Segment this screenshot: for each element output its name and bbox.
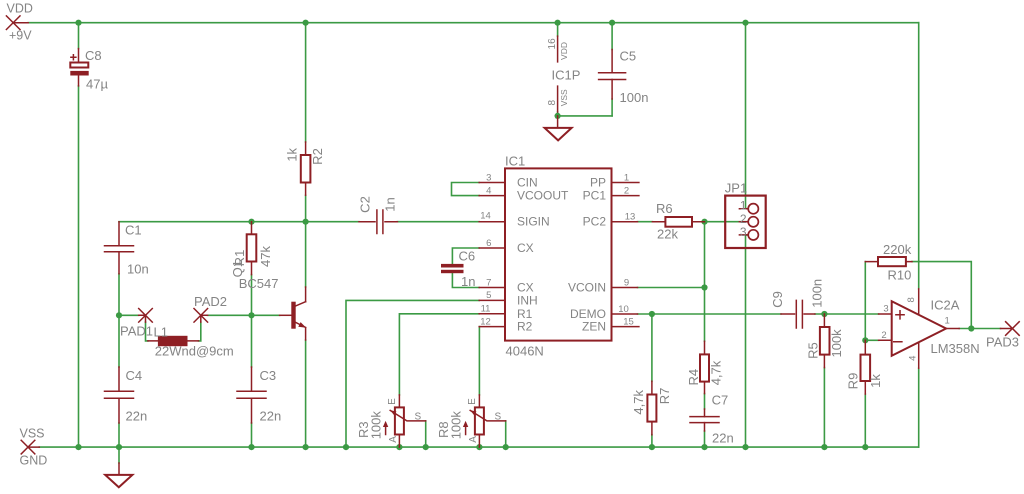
- wire IC1 pin 10 DEMO to C9: [638, 313, 782, 315]
- svg-text:8: 8: [906, 297, 917, 302]
- wire R9 to bottom rail: [864, 394, 866, 447]
- wire top rail to JP1 pin 1: [746, 23, 749, 209]
- svg-text:10n: 10n: [127, 262, 149, 277]
- svg-text:C4: C4: [126, 368, 143, 383]
- svg-text:15: 15: [623, 316, 634, 327]
- svg-text:7: 7: [486, 277, 491, 288]
- wire top rail to R2: [305, 23, 307, 142]
- svg-text:PAD2: PAD2: [194, 294, 227, 309]
- svg-text:4,7k: 4,7k: [631, 390, 646, 415]
- svg-text:1n: 1n: [383, 197, 398, 211]
- capacitor C8: [70, 48, 108, 91]
- wire top rail to C8: [78, 23, 80, 49]
- svg-text:100k: 100k: [369, 411, 384, 440]
- svg-text:2: 2: [881, 330, 886, 341]
- svg-text:2: 2: [740, 212, 747, 226]
- ground symbol below C4: [105, 463, 132, 487]
- wire IC1 pin 6 to C6: [452, 248, 479, 264]
- svg-text:3: 3: [740, 225, 747, 239]
- wire C4 to bottom rail: [118, 423, 120, 447]
- svg-text:LM358N: LM358N: [931, 341, 980, 356]
- junction dots top rail: [75, 20, 748, 26]
- svg-text:47k: 47k: [258, 246, 273, 267]
- svg-text:R6: R6: [656, 201, 673, 216]
- svg-text:R4: R4: [686, 369, 701, 386]
- inductor L1: [148, 325, 234, 359]
- svg-text:S: S: [415, 412, 422, 423]
- capacitor C1: [105, 222, 149, 277]
- svg-text:VDD: VDD: [7, 1, 33, 15]
- svg-text:INH: INH: [517, 294, 538, 308]
- svg-text:R5: R5: [806, 342, 821, 359]
- resistor R10: [865, 242, 912, 283]
- wire op-amp pin 4 to bottom rail: [918, 368, 920, 447]
- svg-text:A: A: [388, 436, 399, 443]
- svg-text:4046N: 4046N: [506, 343, 544, 358]
- svg-text:IC1P: IC1P: [552, 68, 581, 83]
- svg-text:BC547: BC547: [239, 276, 279, 291]
- wire IC1 pin 13 to R6: [638, 221, 653, 223]
- wire R4 to C7: [704, 394, 706, 409]
- wire R3 wiper to bottom rail: [425, 421, 427, 447]
- svg-text:PC2: PC2: [583, 215, 607, 229]
- wire R10 left to pin2 node: [864, 262, 866, 341]
- wire C7 to bottom rail: [704, 431, 706, 447]
- wire L1 to PAD2: [199, 322, 201, 341]
- wire C3 to bottom rail: [251, 423, 253, 447]
- svg-text:SIGIN: SIGIN: [517, 215, 550, 229]
- wire R5 to bottom rail: [823, 368, 825, 448]
- wire Q1 emitter to bottom rail: [305, 340, 307, 447]
- svg-text:PAD1: PAD1: [120, 324, 153, 339]
- svg-text:R10: R10: [888, 268, 912, 283]
- svg-text:IC1: IC1: [505, 154, 525, 169]
- svg-text:1: 1: [740, 199, 747, 213]
- svg-text:R7: R7: [657, 388, 672, 405]
- svg-text:100n: 100n: [620, 90, 649, 105]
- resistor R1: [232, 222, 273, 275]
- pad PAD3: [986, 322, 1019, 350]
- resistor R9: [846, 340, 884, 394]
- svg-text:ZEN: ZEN: [582, 320, 606, 334]
- svg-text:C2: C2: [357, 196, 372, 213]
- wire IC1 pin 11 to R3: [399, 314, 479, 395]
- wire pin2 node to op-amp pin 2: [865, 339, 878, 341]
- svg-text:C5: C5: [620, 48, 637, 63]
- svg-text:22Wnd@9cm: 22Wnd@9cm: [155, 344, 234, 359]
- wire C9 to op-amp pin 3: [815, 313, 879, 315]
- svg-text:CX: CX: [517, 281, 534, 295]
- transistor Q1: [230, 260, 306, 340]
- wire R6 to JP1 pin 2: [705, 221, 749, 223]
- svg-text:C9: C9: [770, 291, 785, 308]
- wire ground stub below C4: [118, 447, 120, 463]
- op-amp IC2A: [879, 289, 980, 368]
- svg-text:11: 11: [481, 304, 491, 315]
- svg-text:22k: 22k: [657, 227, 678, 242]
- wire VSS bottom rail: [39, 446, 918, 448]
- svg-text:S: S: [495, 412, 502, 423]
- wire VDD top rail: [28, 22, 919, 24]
- pad VDD: [6, 1, 33, 42]
- svg-text:Q1: Q1: [230, 260, 245, 277]
- wire PAD1 node to C4: [118, 315, 120, 367]
- svg-text:9: 9: [624, 277, 629, 288]
- pad VSS / GND: [20, 426, 48, 467]
- svg-text:VCOOUT: VCOOUT: [517, 189, 569, 203]
- svg-text:C3: C3: [260, 368, 277, 383]
- connector JP1: [725, 181, 766, 248]
- wire IC1P pin 8 to ground: [558, 112, 613, 116]
- svg-text:PAD3: PAD3: [986, 335, 1019, 350]
- wire R8 wiper to bottom rail: [505, 421, 507, 447]
- wire C8 to bottom rail: [78, 86, 80, 447]
- svg-text:100n: 100n: [810, 279, 825, 308]
- svg-text:GND: GND: [20, 454, 48, 468]
- svg-text:1n: 1n: [461, 274, 475, 289]
- wire R1 to base node: [251, 275, 253, 316]
- wire C1 to PAD1 node: [118, 274, 120, 316]
- svg-text:E: E: [467, 398, 478, 405]
- wire R6 node down to R4: [704, 222, 706, 342]
- svg-text:6: 6: [486, 238, 491, 249]
- wire IC1 pins 3-4 loop: [452, 183, 480, 196]
- svg-text:VCOIN: VCOIN: [568, 281, 606, 295]
- svg-text:8: 8: [547, 99, 558, 105]
- svg-text:PP: PP: [590, 176, 606, 190]
- capacitor C7: [690, 393, 734, 446]
- capacitor C2: [357, 196, 397, 233]
- wire IC1 pin 5 INH: [346, 300, 479, 447]
- IC1P power gate: [547, 36, 580, 112]
- svg-text:1k: 1k: [284, 147, 299, 161]
- svg-text:C7: C7: [712, 393, 729, 408]
- wire R2 to node A: [305, 195, 307, 221]
- wire C2 to IC1 pin 14: [397, 221, 479, 223]
- svg-text:C8: C8: [85, 48, 102, 63]
- capacitor C4: [105, 367, 148, 423]
- svg-text:PC1: PC1: [583, 189, 607, 203]
- svg-text:100k: 100k: [829, 329, 844, 358]
- svg-text:A: A: [468, 436, 479, 443]
- wire top rail to IC1P pin 16: [557, 23, 559, 36]
- resistor R4: [686, 341, 723, 393]
- svg-text:R2: R2: [310, 148, 325, 165]
- svg-text:R9: R9: [846, 373, 861, 390]
- svg-text:22n: 22n: [260, 408, 282, 423]
- svg-text:12: 12: [480, 316, 491, 327]
- svg-text:220k: 220k: [883, 242, 912, 257]
- svg-text:CX: CX: [517, 241, 534, 255]
- svg-text:22n: 22n: [126, 408, 148, 423]
- svg-text:14: 14: [480, 210, 491, 221]
- svg-text:13: 13: [625, 211, 636, 222]
- svg-text:10: 10: [618, 304, 629, 315]
- svg-text:IC2A: IC2A: [931, 298, 960, 313]
- capacitor C5: [599, 48, 649, 105]
- resistor R7: [631, 381, 672, 434]
- wire C5 to ground node: [611, 99, 613, 116]
- svg-text:VSS: VSS: [20, 426, 45, 440]
- svg-text:4: 4: [908, 356, 919, 361]
- trimmer R8: [436, 395, 506, 447]
- wire node A row: C1/R1/R2/C2: [119, 221, 359, 223]
- wire PAD1 node to PAD1: [119, 314, 139, 316]
- capacitor C9: [770, 279, 825, 328]
- svg-text:100k: 100k: [449, 411, 464, 440]
- wire base node to C3: [251, 315, 253, 367]
- wire top rail to C5: [611, 23, 613, 50]
- svg-text:3: 3: [486, 172, 491, 183]
- svg-text:3: 3: [883, 304, 888, 315]
- resistor R6: [652, 201, 704, 242]
- junction dots mid nets: [116, 113, 975, 344]
- svg-text:C6: C6: [459, 248, 476, 263]
- svg-text:CIN: CIN: [517, 176, 538, 190]
- pad PAD2: [194, 294, 227, 322]
- capacitor C6: [441, 248, 475, 289]
- wire IC1 pin 12 to R8: [478, 327, 480, 395]
- wire IC1 pin 9 VCOIN: [638, 287, 705, 289]
- svg-text:47µ: 47µ: [86, 77, 108, 92]
- trimmer R3: [356, 395, 426, 447]
- wire DEMO node down to R7: [651, 314, 653, 381]
- ground symbol IC1P: [545, 116, 572, 140]
- wire PAD1 down to L1: [146, 322, 148, 341]
- svg-text:JP1: JP1: [725, 181, 747, 196]
- svg-text:+9V: +9V: [9, 28, 32, 42]
- pad PAD1: [120, 309, 153, 339]
- svg-text:4,7k: 4,7k: [709, 360, 724, 385]
- resistor R5: [806, 314, 845, 368]
- svg-text:VSS: VSS: [559, 89, 569, 106]
- IC1 4046N: [479, 154, 639, 359]
- resistor R2: [284, 142, 325, 195]
- svg-text:E: E: [387, 398, 398, 405]
- wire JP1 pin 3 to bottom rail: [746, 235, 749, 447]
- svg-text:16: 16: [547, 38, 558, 50]
- wire op-amp output to PAD3: [959, 328, 1000, 330]
- svg-text:2: 2: [624, 185, 629, 196]
- svg-text:R2: R2: [517, 320, 533, 334]
- wire PAD2 to Q1 base: [208, 314, 280, 316]
- wire VDD drop to op-amp pin 8: [918, 23, 920, 289]
- svg-text:22n: 22n: [712, 431, 734, 446]
- svg-text:L1: L1: [154, 325, 168, 340]
- wire node A to Q1 collector: [305, 222, 307, 287]
- svg-text:VDD: VDD: [559, 42, 569, 60]
- svg-text:C1: C1: [125, 222, 142, 237]
- wire C6 to IC1 pin 7: [452, 273, 479, 287]
- capacitor C3: [237, 367, 281, 423]
- wire R10 right to output node: [912, 262, 971, 329]
- wire R7 to bottom rail: [651, 435, 653, 447]
- svg-text:1k: 1k: [868, 374, 883, 388]
- svg-text:4: 4: [486, 185, 491, 196]
- svg-text:1: 1: [624, 172, 629, 183]
- junction dots bottom rail: [75, 444, 868, 450]
- svg-text:5: 5: [486, 290, 491, 301]
- svg-text:1: 1: [945, 316, 950, 327]
